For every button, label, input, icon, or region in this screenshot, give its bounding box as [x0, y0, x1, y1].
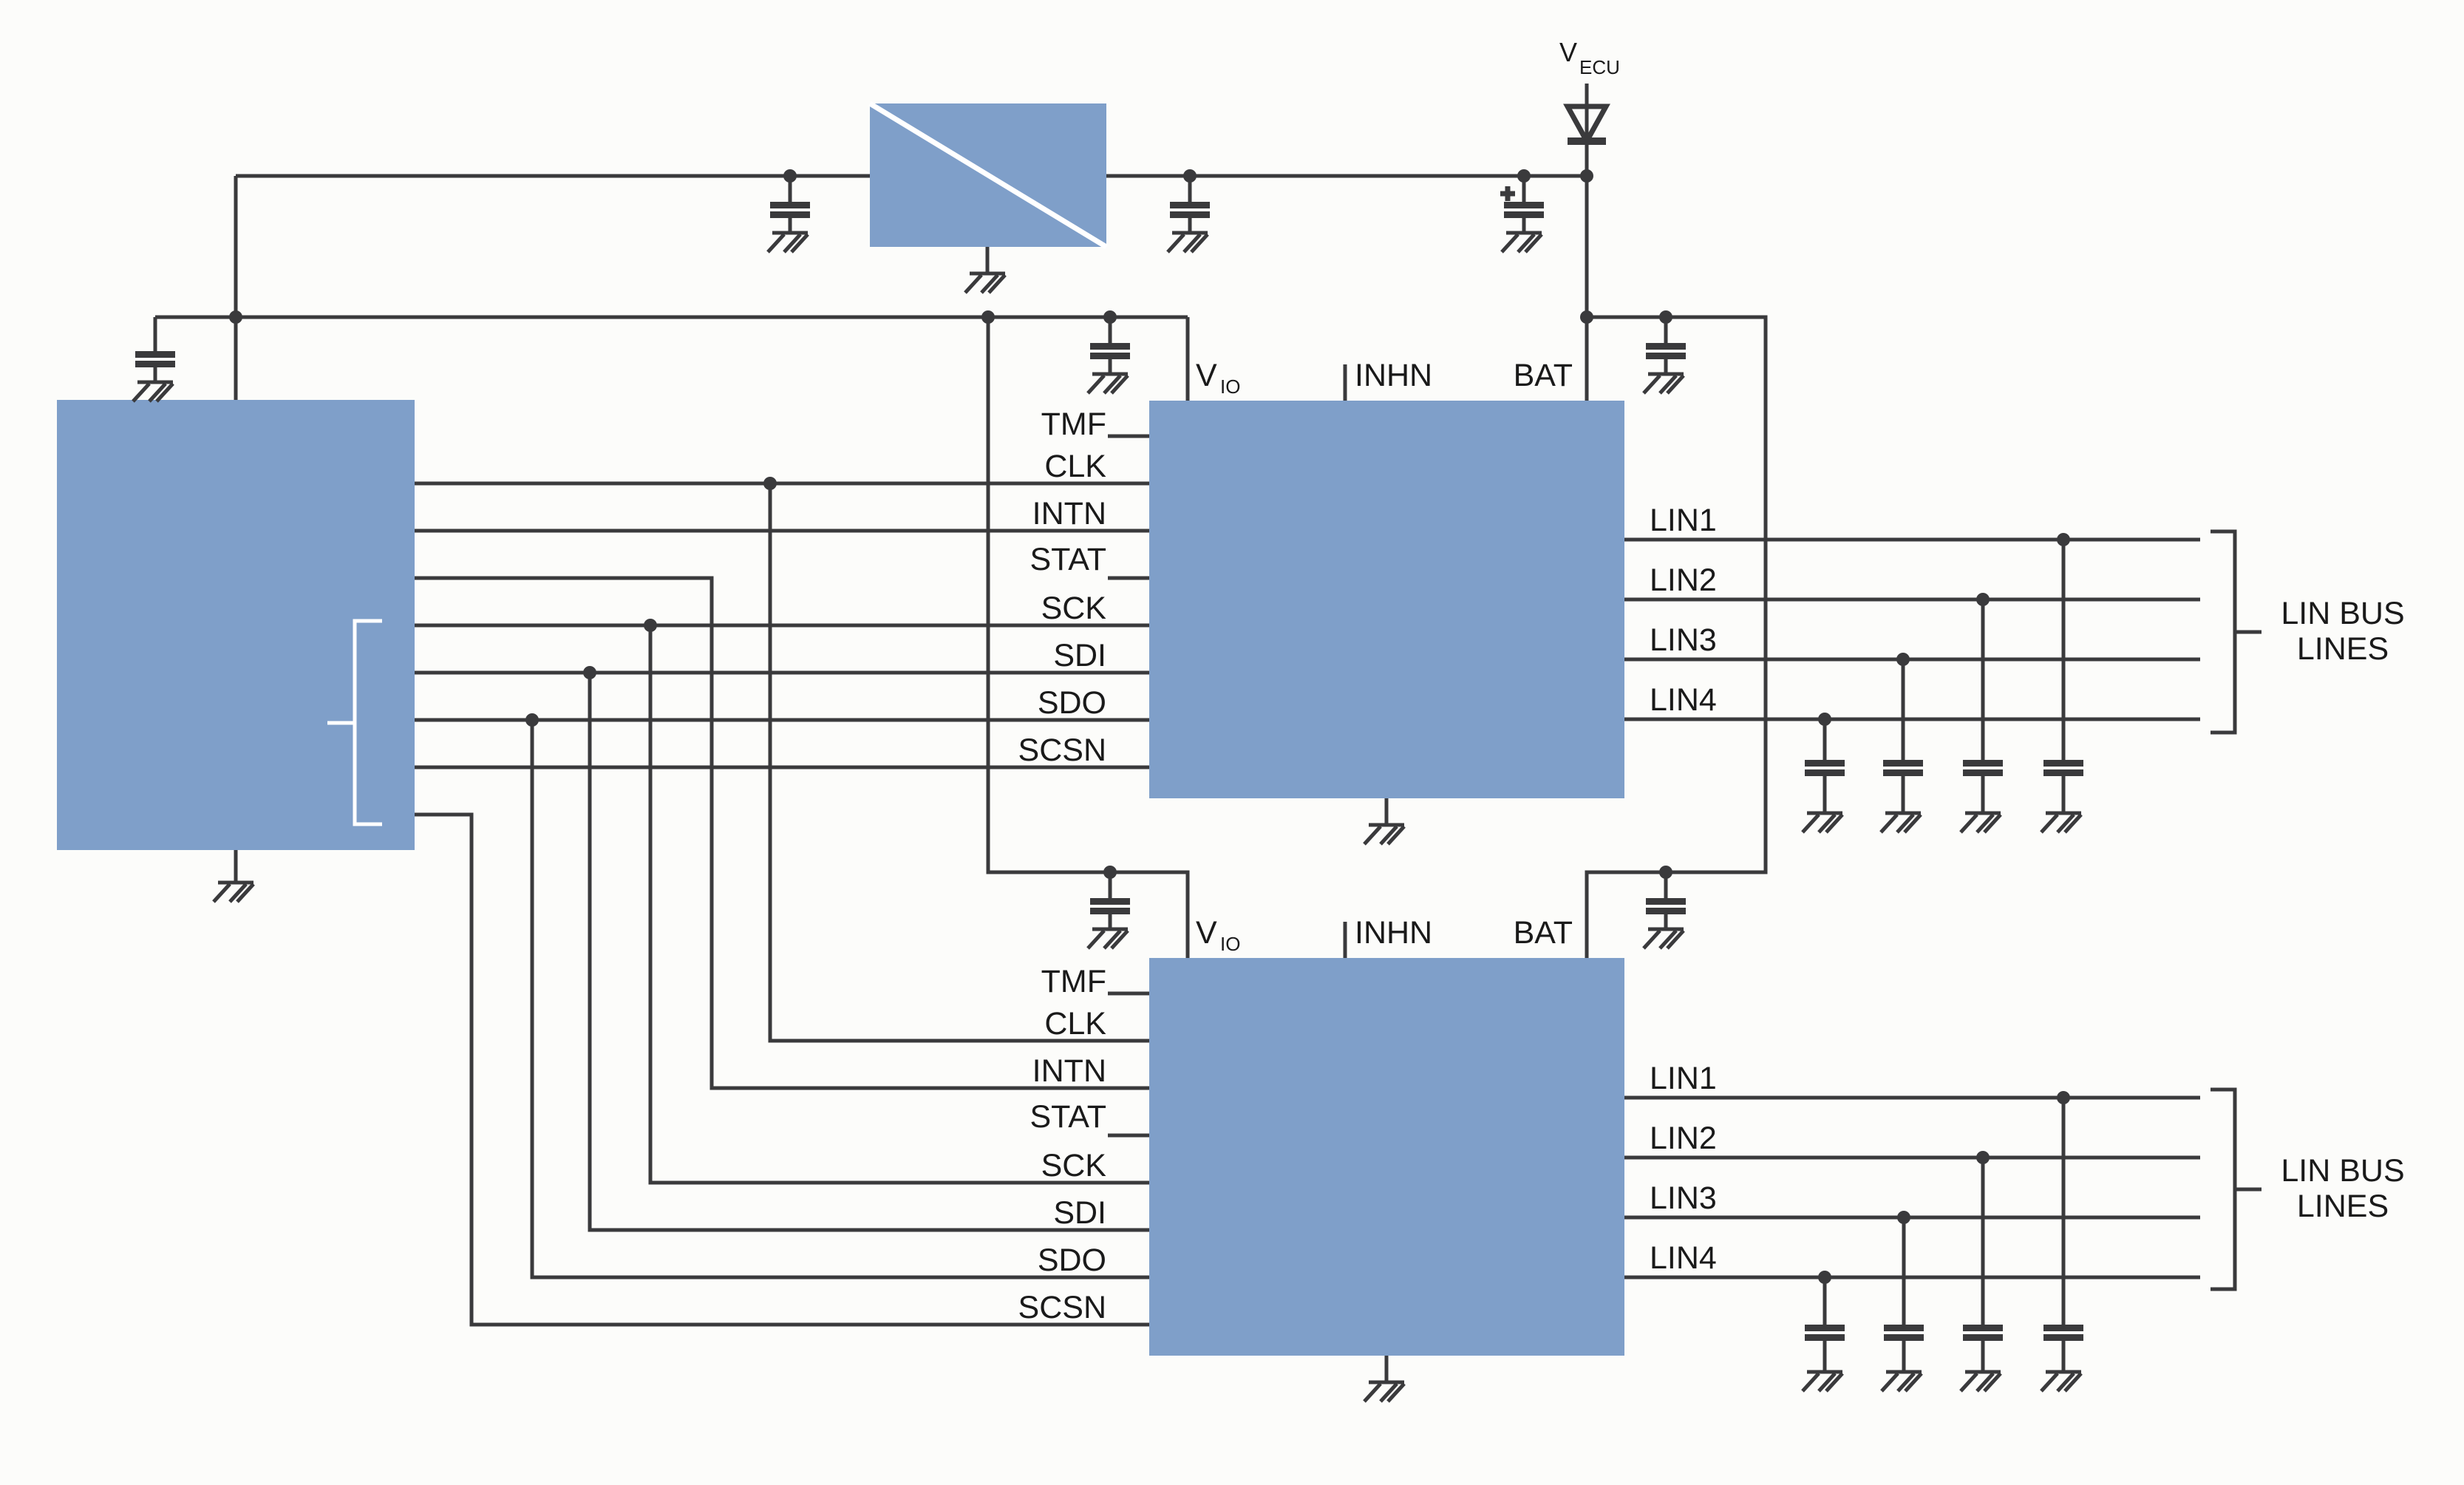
ground (C5) — [1644, 374, 1684, 393]
svg-text:STAT: STAT — [1029, 1099, 1106, 1135]
wire TMF stub U3 — [1108, 435, 1149, 438]
diode D1 — [1568, 106, 1606, 145]
svg-text:LIN4: LIN4 — [1650, 1240, 1717, 1276]
svg-text:CLK: CLK — [1044, 1006, 1106, 1041]
ground (C7) — [1088, 929, 1128, 948]
svg-text:ECU: ECU — [1579, 56, 1620, 78]
capacitor C3 (DC-DC output) — [1170, 169, 1210, 233]
capacitor C6 (VIO U3) — [1090, 310, 1130, 374]
wire LIN3 U4 — [1624, 1216, 2200, 1220]
ground (C9) — [1803, 813, 1842, 832]
node BAT rail junction — [1580, 310, 1593, 324]
capacitor C1 (U1 supply bypass) — [135, 317, 175, 382]
wire SCK branch to U4 — [650, 625, 1149, 1183]
ground (C8) — [1644, 929, 1684, 948]
svg-text:LIN3: LIN3 — [1650, 1180, 1717, 1216]
wire INTN U1 to U3 — [415, 529, 1149, 533]
wire BAT rail to U4 — [1587, 317, 1766, 958]
ground (C14) — [1882, 1372, 1922, 1391]
capacitor C16 (LIN1 U4) — [2043, 1091, 2083, 1372]
ground (C11) — [1961, 813, 2001, 832]
node VIO label U4 — [1196, 915, 1240, 955]
ground (C6) — [1088, 374, 1128, 393]
svg-text:LINES: LINES — [2297, 631, 2389, 667]
wire STAT stub U4 — [1108, 1134, 1149, 1138]
svg-text:SDO: SDO — [1038, 685, 1106, 721]
LIN transceiver U3 — [1149, 401, 1624, 798]
svg-text:INTN: INTN — [1032, 1053, 1106, 1089]
svg-text:LIN BUS: LIN BUS — [2281, 596, 2404, 631]
wire VIO pin U3 — [1186, 317, 1190, 401]
svg-text:SCSN: SCSN — [1018, 733, 1106, 768]
ground (C2) — [768, 233, 808, 252]
svg-text:INHN: INHN — [1355, 358, 1432, 393]
wire STAT stub U3 — [1108, 577, 1149, 580]
wire top rail left — [236, 174, 870, 178]
wire LIN2 U3 — [1624, 598, 2200, 602]
capacitor C11 (LIN2 U3) — [1963, 593, 2003, 813]
capacitor C2 (DC-DC input) — [770, 169, 810, 233]
ground (U1) — [214, 850, 253, 902]
node CLK junction — [763, 477, 777, 490]
svg-text:V: V — [1196, 358, 1217, 393]
ground (C10) — [1881, 813, 1921, 832]
ground (C16) — [2041, 1372, 2081, 1391]
svg-text:IO: IO — [1220, 376, 1240, 398]
capacitor C10 (LIN3 U3) — [1883, 653, 1923, 813]
LIN transceiver U4 — [1149, 958, 1624, 1356]
node VIO label U3 — [1196, 358, 1240, 398]
ground (C4) — [1502, 233, 1542, 252]
wire SDO U1 to U3 — [415, 718, 1149, 722]
node SCK junction — [644, 619, 657, 632]
wire SCSN U1 to U4 — [415, 815, 1149, 1325]
net LIN BUS LINES label U3 — [2281, 596, 2404, 667]
capacitor C15 (LIN2 U4) — [1963, 1151, 2003, 1372]
svg-text:SCK: SCK — [1041, 1148, 1107, 1183]
svg-text:SCK: SCK — [1041, 591, 1107, 626]
capacitor C9 (LIN4 U3) — [1805, 713, 1845, 813]
LIN bus bracket U4 — [2211, 1090, 2261, 1289]
svg-text:IO: IO — [1220, 933, 1240, 955]
node SDO junction — [525, 713, 539, 727]
svg-text:LIN2: LIN2 — [1650, 1121, 1717, 1156]
svg-text:LIN BUS: LIN BUS — [2281, 1153, 2404, 1189]
capacitor C14 (LIN3 U4) — [1884, 1211, 1924, 1372]
svg-text:CLK: CLK — [1044, 449, 1106, 484]
ground (U3) — [1364, 798, 1404, 844]
node diode top-rail junction — [1580, 169, 1593, 183]
svg-text:LIN3: LIN3 — [1650, 622, 1717, 658]
DC-DC converter U2 — [870, 103, 1106, 247]
wire INTN U1 to U4 — [415, 578, 1149, 1088]
capacitor C12 (LIN1 U3) — [2043, 533, 2083, 813]
wire SCSN U1 to U3 — [415, 766, 1149, 769]
node rail junction at U1 supply — [229, 310, 242, 324]
capacitor C7 (VIO U4) — [1090, 866, 1130, 929]
svg-text:V: V — [1196, 915, 1217, 951]
wire LIN4 U3 — [1624, 718, 2200, 721]
capacitor C5 (BAT U3) — [1646, 310, 1686, 374]
svg-text:LIN4: LIN4 — [1650, 682, 1717, 718]
svg-text:TMF: TMF — [1041, 964, 1106, 999]
node VIO feed junction — [981, 310, 995, 324]
svg-text:SDI: SDI — [1053, 1195, 1106, 1231]
svg-text:LIN1: LIN1 — [1650, 503, 1717, 538]
ground (C12) — [2041, 813, 2081, 832]
svg-text:SDO: SDO — [1038, 1243, 1106, 1278]
svg-text:INHN: INHN — [1355, 915, 1432, 951]
wire VIO feed to U4 — [988, 317, 1188, 958]
svg-text:V: V — [1559, 37, 1577, 67]
wire CLK branch to U4 — [770, 483, 1149, 1041]
wire LIN1 U4 — [1624, 1096, 2200, 1100]
svg-text:SCSN: SCSN — [1018, 1290, 1106, 1325]
wire left vertical to U1 supply — [234, 176, 238, 400]
svg-text:SDI: SDI — [1053, 638, 1106, 673]
svg-text:BAT: BAT — [1514, 358, 1573, 393]
LIN bus bracket U3 — [2211, 531, 2261, 733]
wire SDO branch to U4 — [532, 720, 1149, 1277]
wire SCK U1 to U3 — [415, 624, 1149, 628]
wire LIN1 U3 — [1624, 538, 2200, 542]
svg-text:INTN: INTN — [1032, 496, 1106, 531]
capacitor C13 (LIN4 U4) — [1805, 1271, 1845, 1372]
svg-text:LIN1: LIN1 — [1650, 1061, 1717, 1096]
capacitor C8 (BAT U4) — [1646, 866, 1686, 929]
wire LIN2 U4 — [1624, 1156, 2200, 1160]
svg-text:STAT: STAT — [1029, 542, 1106, 577]
wire LIN4 U4 — [1624, 1276, 2200, 1280]
ground (C13) — [1803, 1372, 1842, 1391]
svg-text:BAT: BAT — [1514, 915, 1573, 951]
ground (C15) — [1961, 1372, 2001, 1391]
wire VECU diode branch to BAT U3 — [1585, 84, 1589, 401]
wire INHN stub U3 — [1344, 364, 1347, 401]
net LIN BUS LINES label U4 — [2281, 1153, 2404, 1224]
microcontroller block U1 — [57, 400, 415, 850]
node VECU — [1559, 37, 1620, 78]
wire top rail right — [1106, 174, 1587, 178]
ground (C1) — [133, 382, 173, 401]
wire CLK U1 to U3 — [415, 482, 1149, 486]
ground (C3) — [1168, 233, 1208, 252]
svg-text:LINES: LINES — [2297, 1189, 2389, 1224]
node SDI junction — [583, 666, 596, 679]
wire SDI U1 to U3 — [415, 671, 1149, 675]
capacitor C4 (electrolytic, VECU) — [1500, 169, 1544, 233]
svg-text:LIN2: LIN2 — [1650, 563, 1717, 598]
wire TMF stub U4 — [1108, 992, 1149, 996]
wire LIN3 U3 — [1624, 658, 2200, 662]
wire SDI branch to U4 — [590, 673, 1149, 1230]
ground (U2) — [965, 247, 1005, 293]
ground (U4) — [1364, 1356, 1404, 1401]
wire INHN stub U4 — [1344, 922, 1347, 958]
svg-text:TMF: TMF — [1041, 407, 1106, 442]
wire VIO supply rail — [155, 316, 1188, 319]
SPI port bracket (white) inside U1 — [327, 621, 382, 824]
